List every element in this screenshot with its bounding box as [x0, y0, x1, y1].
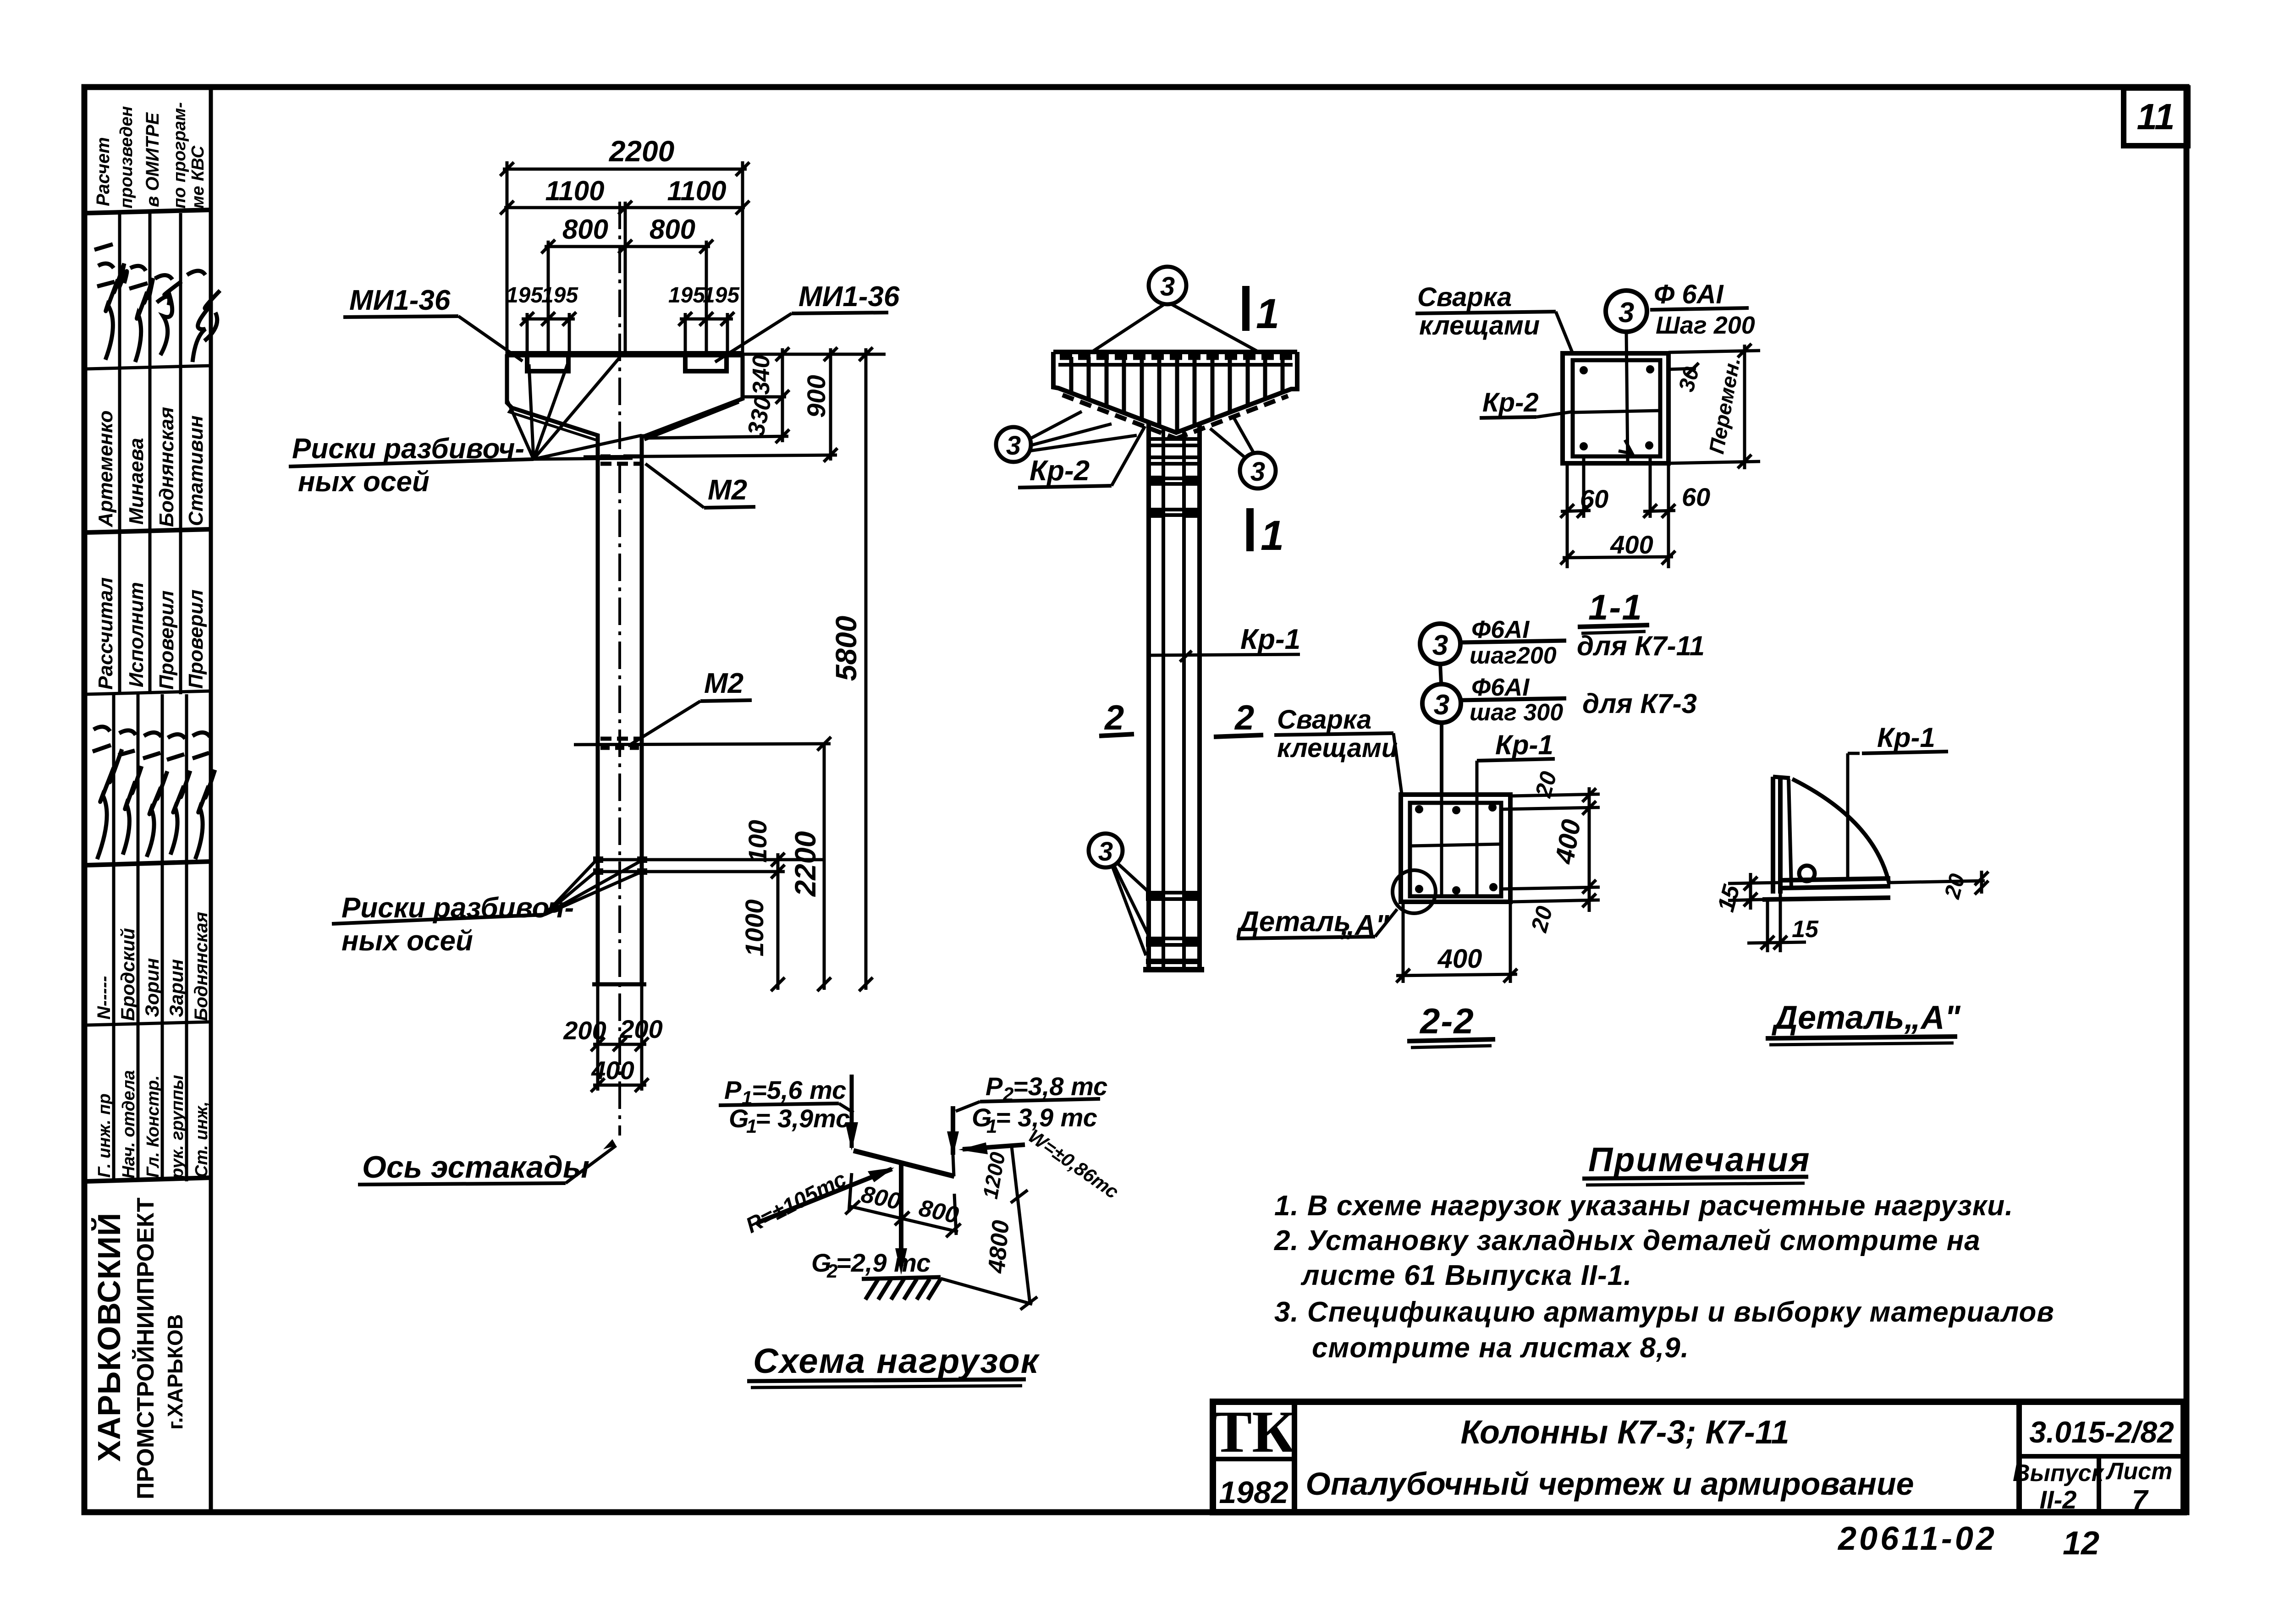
svg-text:Схема нагрузок: Схема нагрузок — [753, 1342, 1040, 1381]
svg-text:400: 400 — [1437, 944, 1482, 974]
svg-text:листе 61 Выпуска II-1.: листе 61 Выпуска II-1. — [1300, 1260, 1632, 1291]
svg-text:=2,9 тс: =2,9 тс — [836, 1248, 931, 1277]
svg-text:М2: М2 — [708, 474, 747, 506]
svg-text:Проверил: Проверил — [185, 590, 207, 689]
title block frame — [1213, 1402, 2184, 1512]
dimensions 195 195 — [520, 312, 734, 356]
left title strip divider — [209, 87, 213, 1512]
svg-text:3: 3 — [1160, 272, 1175, 302]
svg-text:3: 3 — [1250, 457, 1265, 487]
svg-text:3: 3 — [1098, 837, 1113, 867]
svg-text:3: 3 — [1434, 689, 1449, 721]
sheet number box 11 — [2124, 88, 2188, 146]
svg-text:Выпуск: Выпуск — [2013, 1460, 2105, 1487]
svg-text:20: 20 — [1526, 903, 1558, 935]
right circle leaders — [1210, 428, 1246, 458]
svg-text:Шаг 200: Шаг 200 — [1656, 312, 1755, 339]
svg-text:для К7-3: для К7-3 — [1582, 688, 1697, 719]
svg-text:Исполнит: Исполнит — [125, 582, 148, 687]
svg-text:1200: 1200 — [978, 1150, 1010, 1201]
svg-text:шаг 300: шаг 300 — [1470, 699, 1563, 726]
svg-text:1: 1 — [1261, 512, 1284, 559]
embedded plates МИ1-36 — [527, 356, 727, 371]
svg-text:в ОМИТРЕ: в ОМИТРЕ — [143, 112, 163, 207]
section cut marks 2-2 — [1099, 698, 1263, 737]
svg-text:3. Спецификацию арматуры и в: 3. Спецификацию арматуры и выборку матер… — [1274, 1296, 2054, 1328]
svg-text:P: P — [986, 1072, 1003, 1101]
svg-text:Кр-2: Кр-2 — [1482, 388, 1539, 417]
cap stirrup dashes (bottom slants) — [1063, 395, 1176, 439]
cell 5: signatures 2 — [93, 727, 215, 859]
bottom circle leaders — [1118, 863, 1151, 894]
svg-text:P: P — [724, 1075, 742, 1104]
svg-text:Кр-2: Кр-2 — [1030, 455, 1090, 487]
position circles 3 — [996, 267, 1276, 867]
svg-text:1100: 1100 — [667, 176, 726, 206]
svg-text:произведен: произведен — [117, 106, 136, 208]
svg-text:Примечания: Примечания — [1588, 1141, 1811, 1179]
cell 2: signatures (scribbles) — [94, 244, 220, 362]
svg-text:II-2: II-2 — [2040, 1485, 2077, 1514]
svg-text:Ось эстакады: Ось эстакады — [362, 1150, 589, 1185]
svg-text:Сварка: Сварка — [1417, 282, 1512, 312]
svg-text:5800: 5800 — [830, 616, 863, 681]
svg-text:Боднянская: Боднянская — [191, 912, 211, 1021]
dimensions 20 400 20 (2-2) — [1501, 787, 1600, 912]
svg-text:Лист: Лист — [2105, 1458, 2173, 1485]
svg-text:Зарин: Зарин — [165, 959, 187, 1017]
svg-text:Расчет: Расчет — [93, 137, 113, 206]
horizontal cell dividers (vertical strip) — [87, 210, 211, 213]
leader fan: риски разбивочных осей (top) — [507, 357, 642, 459]
svg-text:200: 200 — [619, 1015, 662, 1043]
svg-text:2: 2 — [1234, 698, 1254, 737]
svg-text:Опалубочный чертеж и армирован: Опалубочный чертеж и армирование — [1305, 1466, 1914, 1502]
МИ1-36 label right — [715, 281, 900, 362]
dimension Перемен. + 30 — [1668, 344, 1760, 469]
Деталь А rebar section circle — [1799, 866, 1815, 881]
embedded plate М2 (mid, hidden lines) — [600, 739, 640, 748]
svg-text:W=±0,86тс: W=±0,86тс — [1024, 1125, 1123, 1203]
svg-text:Кр-1: Кр-1 — [1240, 624, 1300, 655]
svg-text:340: 340 — [748, 355, 775, 395]
svg-text:195: 195 — [668, 283, 705, 307]
svg-text:Ст. инж,: Ст. инж, — [192, 1101, 211, 1178]
svg-text:рук. группы: рук. группы — [168, 1075, 187, 1179]
svg-text:Перемен.: Перемен. — [1704, 356, 1745, 455]
left circle leaders — [1030, 411, 1082, 439]
svg-text:=3,8 тс: =3,8 тс — [1013, 1072, 1107, 1101]
svg-text:2-2: 2-2 — [1419, 1001, 1475, 1041]
cap vertical rebars — [1071, 357, 1283, 433]
svg-text:Колонны К7-3; К7-11: Колонны К7-3; К7-11 — [1460, 1414, 1789, 1451]
svg-text:1000: 1000 — [740, 900, 769, 957]
svg-text:Ф 6АI: Ф 6АI — [1654, 280, 1724, 309]
svg-text:400: 400 — [591, 1056, 634, 1085]
shaft stirrups (top cluster) — [1149, 439, 1200, 515]
dimension 2200 (vertical) — [574, 737, 831, 991]
left title strip — [87, 210, 211, 1181]
svg-text:Кр-1: Кр-1 — [1877, 722, 1935, 753]
svg-text:60: 60 — [1580, 484, 1608, 513]
svg-text:Гл. Констр.: Гл. Констр. — [143, 1075, 163, 1178]
svg-text:Артеменко: Артеменко — [94, 411, 117, 527]
section 2-2 concrete outline + stirrup Кр-1 — [1401, 795, 1510, 902]
Деталь А vertical plate — [1773, 777, 1791, 894]
bottom right title block — [1213, 1402, 2184, 1512]
dimensions 60 60 400 (1-1) — [1560, 456, 1675, 568]
svg-text:1: 1 — [1256, 291, 1279, 337]
svg-text:ных осей: ных осей — [341, 925, 473, 957]
position circle 3 (1-1) — [1606, 291, 1647, 332]
svg-text:= 3,9тс: = 3,9тс — [755, 1104, 850, 1133]
svg-text:ХАРЬКОВСКИЙ: ХАРЬКОВСКИЙ — [91, 1213, 127, 1462]
dimensions 200 200 400 — [591, 984, 649, 1092]
svg-text:900: 900 — [802, 375, 831, 417]
cap stirrup dashes (top band) — [1060, 354, 1296, 360]
inner chamfer double lines — [509, 408, 596, 440]
svg-text:7: 7 — [2132, 1485, 2149, 1516]
svg-text:МИ1-36: МИ1-36 — [798, 281, 900, 313]
dimensions 800 800 — [541, 240, 713, 354]
dimensions 1100 1100 — [500, 201, 749, 354]
svg-text:400: 400 — [1549, 817, 1586, 867]
svg-text:2200: 2200 — [609, 135, 674, 168]
svg-text:1100: 1100 — [545, 176, 604, 206]
svg-text:1. В схеме нагрузок указаны ра: 1. В схеме нагрузок указаны расчетные на… — [1274, 1190, 2013, 1222]
dimension 5800 — [859, 347, 873, 991]
svg-text:20611-02: 20611-02 — [1837, 1520, 1997, 1557]
svg-text:2: 2 — [1104, 698, 1124, 737]
section 1-1 concrete outline + stirrup Кр-2 — [1563, 353, 1668, 463]
embedded plate М2 (top, hidden lines) — [600, 456, 640, 464]
svg-text:195: 195 — [506, 283, 543, 307]
svg-text:г.ХАРЬКОВ: г.ХАРЬКОВ — [163, 1314, 187, 1430]
svg-text:100: 100 — [743, 820, 772, 862]
svg-text:400: 400 — [1610, 530, 1653, 559]
svg-text:шаг200: шаг200 — [1470, 642, 1557, 669]
svg-text:Г. инж. пр: Г. инж. пр — [95, 1093, 114, 1178]
svg-text:N-----: N----- — [94, 976, 114, 1020]
svg-text:1-1: 1-1 — [1588, 587, 1643, 627]
svg-text:= 3,9 тс: = 3,9 тс — [996, 1103, 1097, 1132]
svg-text:3.015-2/82: 3.015-2/82 — [2029, 1415, 2174, 1449]
svg-text:800: 800 — [562, 214, 608, 245]
svg-text:Зорин: Зорин — [141, 958, 163, 1017]
svg-text:для К7-11: для К7-11 — [1577, 631, 1705, 661]
svg-text:3: 3 — [1006, 431, 1021, 461]
svg-text:клещами: клещами — [1419, 311, 1540, 340]
svg-text:=5,6 тс: =5,6 тс — [752, 1075, 846, 1104]
dimension 400 (2-2) — [1396, 902, 1517, 983]
force arrow P1 — [850, 1075, 854, 1148]
handwritten doc number bottom — [1837, 1520, 2099, 1562]
svg-text:Ф6АI: Ф6АI — [1471, 674, 1530, 701]
svg-text:Деталь: Деталь — [1236, 906, 1351, 938]
svg-text:15: 15 — [1712, 882, 1745, 915]
svg-text:12: 12 — [2063, 1525, 2099, 1562]
label: Риски разбивочных осей (top) — [289, 433, 534, 498]
svg-text:330: 330 — [743, 394, 777, 439]
svg-text:смотрите на листах 8,9.: смотрите на листах 8,9. — [1312, 1332, 1689, 1364]
force arrow P2 — [953, 1106, 954, 1176]
svg-text:клещами: клещами — [1277, 733, 1398, 763]
svg-text:М2: М2 — [704, 668, 743, 699]
sub column lines: cells rows 2-4 (4 cols) — [114, 213, 187, 1181]
section cut marks 1-1 — [1242, 286, 1284, 559]
svg-text:ме КВС: ме КВС — [188, 145, 208, 208]
force arrow R=±105тс — [758, 1169, 892, 1223]
force arrow G2 — [899, 1164, 903, 1266]
column centerline — [618, 202, 621, 1136]
label М2 (top) — [645, 464, 755, 508]
svg-text:Проверил: Проверил — [155, 591, 178, 690]
svg-text:800: 800 — [650, 214, 695, 245]
svg-text:Сварка: Сварка — [1277, 705, 1371, 735]
cells rows 5-7 (5 cols) — [112, 694, 116, 1181]
shaft stirrups (bottom cluster) — [1149, 893, 1200, 945]
risk marks + dimensions 100 1000 — [598, 853, 824, 991]
svg-text:Рассчитал: Рассчитал — [94, 577, 117, 690]
label Кр-1 — [1149, 624, 1300, 662]
dimensions 340 330 900 — [584, 347, 886, 462]
svg-text:по програм-: по програм- — [170, 102, 189, 208]
Деталь А bent stirrup curve — [1792, 779, 1889, 884]
shaft longitudinal rebars — [1149, 422, 1200, 971]
svg-text:Деталь„А": Деталь„А" — [1771, 999, 1961, 1036]
svg-text:Стативин: Стативин — [185, 416, 207, 526]
svg-text:3: 3 — [1619, 297, 1634, 329]
force arrow W=±0,86тс — [963, 1145, 1025, 1149]
svg-text:МИ1-36: МИ1-36 — [349, 285, 451, 316]
dimensions 15 15 20 (Деталь А) — [1728, 871, 1988, 952]
svg-text:15: 15 — [1792, 916, 1819, 943]
dimensions 1200 4800 — [941, 1147, 1037, 1310]
leaders from circles 3 — [1030, 304, 1257, 955]
left strip rotated texts — [91, 102, 220, 1499]
label М2 (mid) — [628, 668, 752, 746]
svg-text:195: 195 — [541, 283, 578, 307]
svg-text:2. Установку закладных детал: 2. Установку закладных деталей смотрите … — [1274, 1225, 1981, 1256]
МИ1-36 label left — [343, 285, 523, 361]
label: Ось эстакады — [358, 1139, 616, 1185]
leader fan: риски разбивочных осей (bottom) — [545, 861, 640, 915]
page number box 11 — [2124, 88, 2188, 146]
svg-text:ТК: ТК — [1212, 1399, 1295, 1465]
svg-text:11: 11 — [2136, 96, 2175, 137]
svg-text:Боднянская: Боднянская — [155, 407, 178, 527]
svg-text:Минаева: Минаева — [125, 438, 148, 525]
svg-text:60: 60 — [1682, 483, 1710, 511]
reinforcement cage cap outline — [1053, 352, 1297, 433]
Деталь А callout circle — [1393, 870, 1436, 913]
svg-text:Нач. отдела: Нач. отдела — [119, 1070, 138, 1179]
svg-text:200: 200 — [563, 1016, 606, 1045]
dimension 2200 — [500, 161, 749, 354]
dimensions 800 800 (load diagram) — [845, 1173, 961, 1237]
Деталь А horizontal bars — [1762, 878, 1985, 900]
label Кр-2 — [1018, 426, 1145, 488]
load diagram beam — [853, 1151, 954, 1176]
svg-text:195: 195 — [703, 283, 740, 307]
svg-text:Бродский: Бродский — [117, 928, 138, 1021]
svg-text:R=±105тс: R=±105тс — [742, 1167, 850, 1238]
svg-text:ных осей: ных осей — [298, 466, 429, 498]
svg-text:2200: 2200 — [789, 831, 822, 897]
svg-text:Кр-1: Кр-1 — [1495, 730, 1553, 760]
svg-text:4800: 4800 — [983, 1219, 1014, 1274]
column K7 cap outline (elevation) — [507, 354, 743, 984]
svg-text:1982: 1982 — [1219, 1475, 1288, 1510]
ground symbol with hatching — [862, 1277, 941, 1300]
svg-text:ПРОМСТРОЙНИИПРОЕКТ: ПРОМСТРОЙНИИПРОЕКТ — [132, 1197, 159, 1499]
svg-text:3: 3 — [1432, 630, 1448, 661]
svg-text:Ф6АI: Ф6АI — [1471, 616, 1530, 643]
svg-text:20: 20 — [1940, 871, 1970, 902]
